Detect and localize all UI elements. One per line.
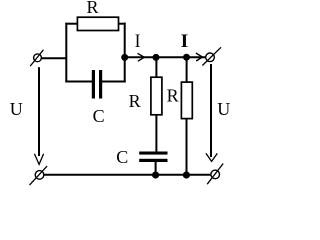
svg-text:U: U	[217, 99, 230, 119]
svg-text:I: I	[181, 31, 189, 52]
svg-text:R: R	[129, 91, 141, 111]
svg-text:I: I	[135, 31, 141, 52]
svg-text:R: R	[167, 85, 179, 105]
svg-text:C: C	[116, 147, 128, 167]
svg-text:C: C	[93, 106, 105, 126]
svg-text:R: R	[87, 0, 99, 17]
svg-text:U: U	[10, 99, 23, 119]
